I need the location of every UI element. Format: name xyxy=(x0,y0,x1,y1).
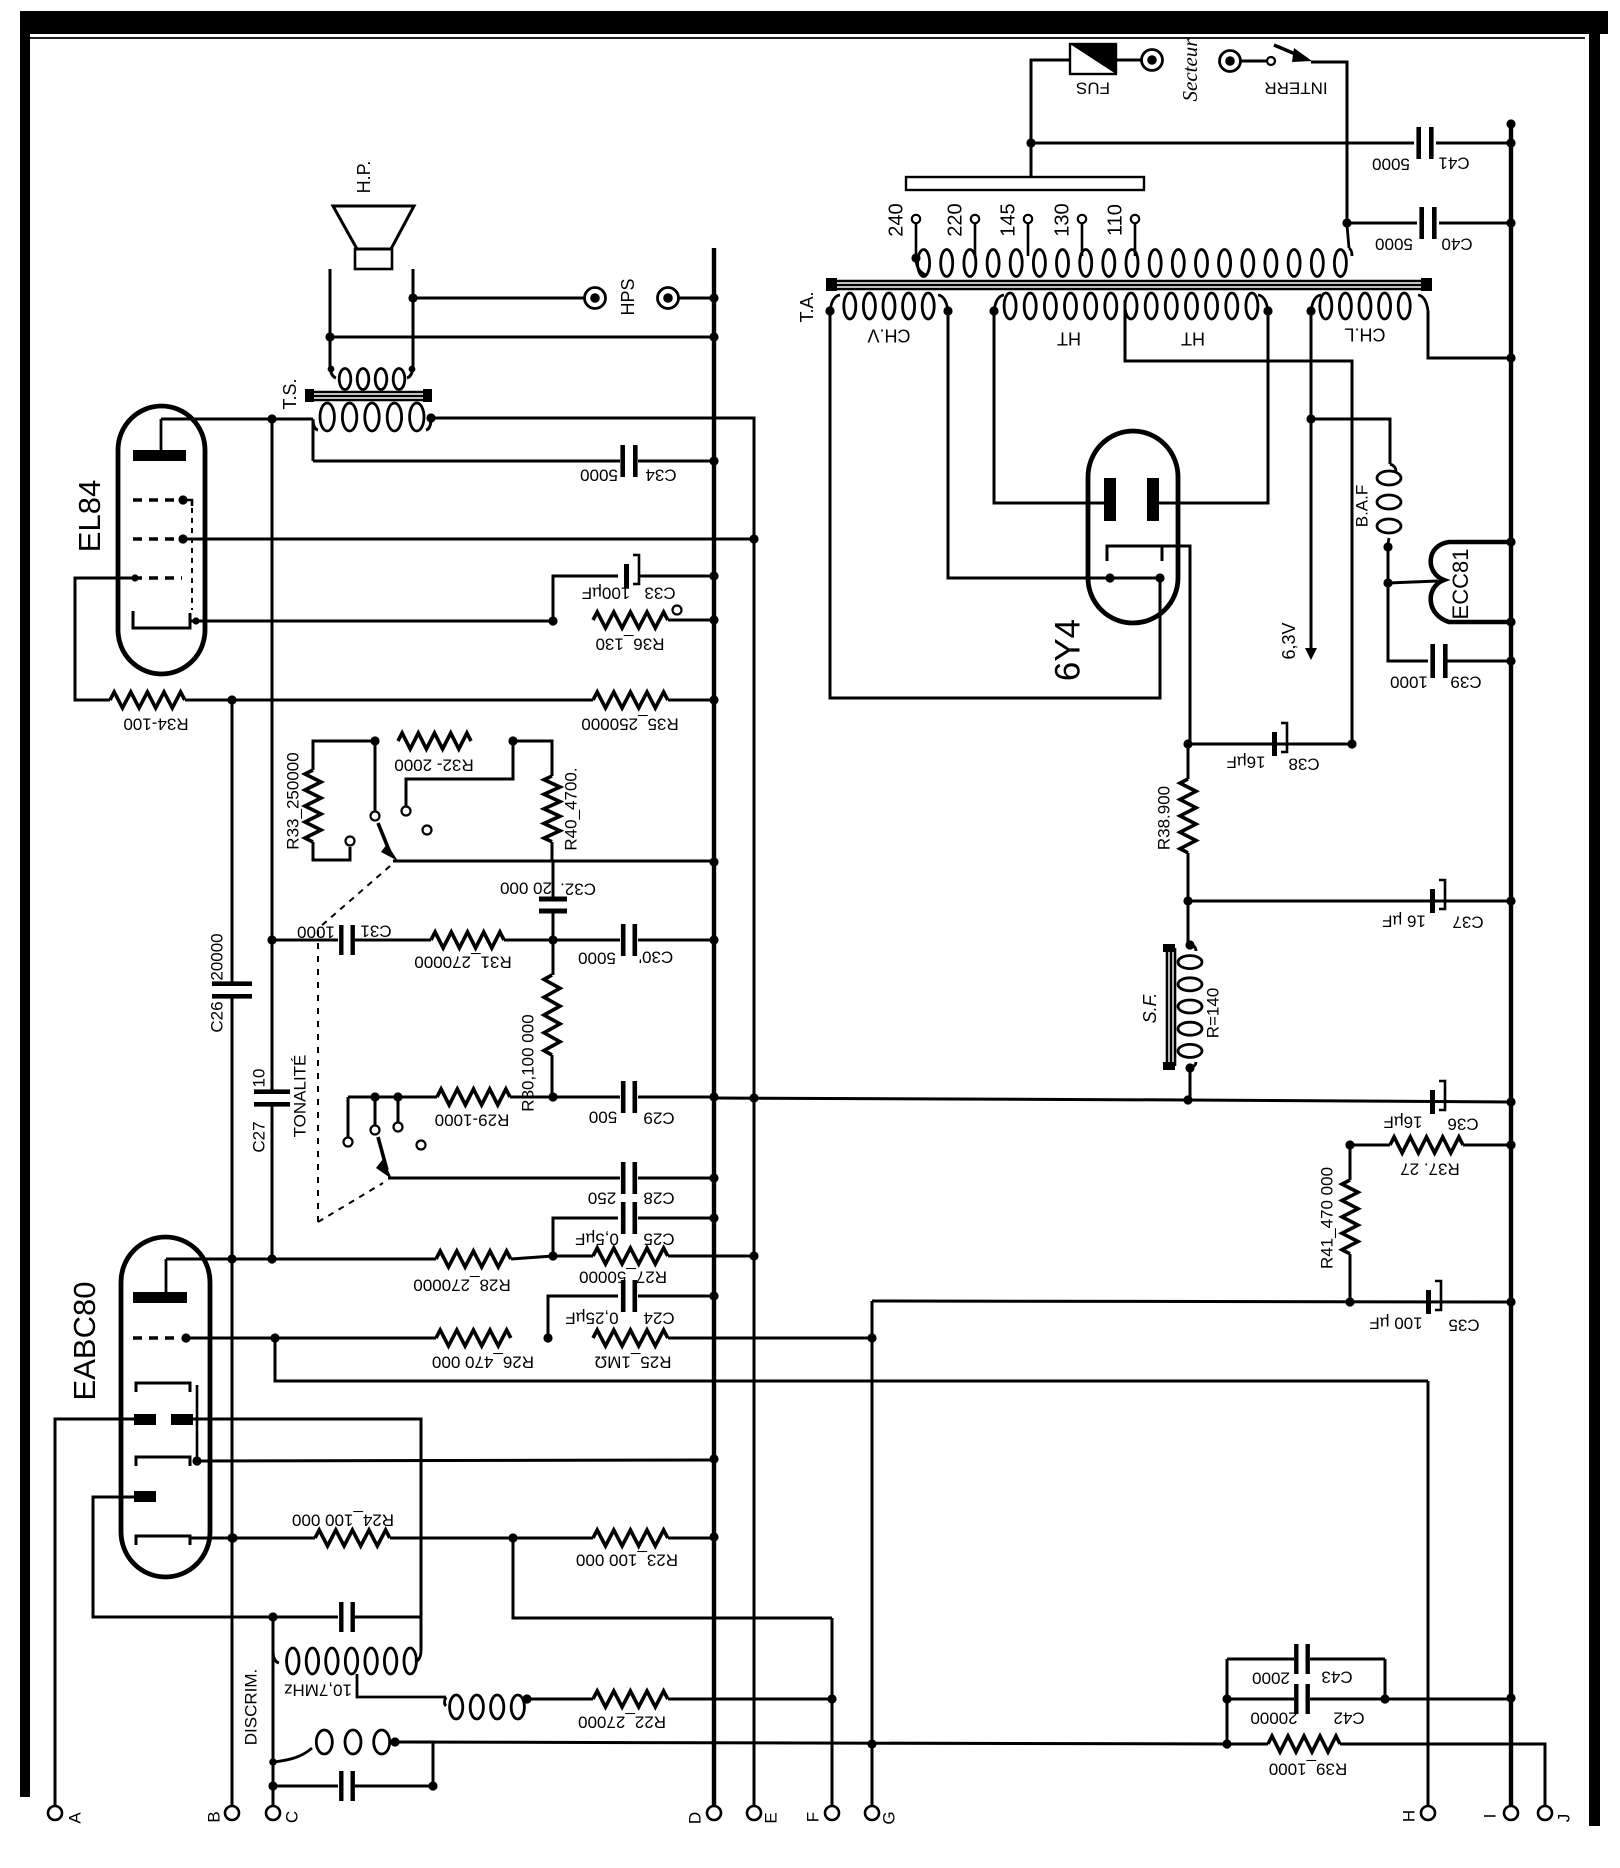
wire C28 to ground bus xyxy=(638,1177,714,1180)
tone switch arm blade xyxy=(378,823,398,861)
wire FUS left xyxy=(1031,60,1070,177)
wire C34 row left xyxy=(313,460,620,463)
label Secteur xyxy=(1178,38,1202,102)
terminal J xyxy=(1538,1806,1552,1820)
svg-text:R29-1000: R29-1000 xyxy=(435,1111,510,1130)
svg-text:HT: HT xyxy=(1057,328,1081,348)
svg-text:C32.: C32. xyxy=(560,880,596,899)
tube EL84 label xyxy=(72,480,107,552)
label HPS xyxy=(618,278,638,315)
resistor R27 xyxy=(593,1248,668,1264)
junction C38 right xyxy=(1347,739,1356,748)
svg-text:C26: C26 xyxy=(207,1001,226,1032)
EL84 g3 pin junction xyxy=(178,495,187,504)
capacitor C40 row wire right xyxy=(1439,222,1511,225)
node EL84 plate wire xyxy=(161,418,313,421)
6Y4 filament lead bar xyxy=(1108,577,1162,580)
capacitor C38 electrolytic xyxy=(1272,723,1287,756)
wire C38 row xyxy=(1188,743,1352,746)
svg-text:A: A xyxy=(65,1812,84,1824)
wire diode right to LC column xyxy=(193,1419,421,1617)
label 6,3V xyxy=(1279,622,1299,659)
capacitor discr tertiary xyxy=(339,1771,355,1801)
resistor R30 xyxy=(544,975,560,1055)
wire discr coupling tap xyxy=(357,1674,446,1697)
transformer 10.7MHz primary winding xyxy=(273,1648,416,1674)
svg-text:500: 500 xyxy=(589,1108,617,1127)
capacitor C35 value label xyxy=(1369,1314,1422,1333)
winding HT label 2 xyxy=(1181,328,1205,348)
transformer T.A. core xyxy=(826,278,1432,291)
tap 220 circle xyxy=(971,215,979,223)
transformer 10.7MHz secondary winding xyxy=(445,1695,525,1719)
junction HT right xyxy=(1263,306,1272,315)
junction tone2 contact top xyxy=(393,1092,402,1101)
right bus wire xyxy=(1509,122,1513,1806)
svg-text:HPS: HPS xyxy=(618,278,638,315)
junction on ground bus xyxy=(709,293,718,302)
svg-text:C37: C37 xyxy=(1452,913,1483,932)
junction on right bus xyxy=(1506,218,1515,227)
wire R25 to G column xyxy=(668,1337,872,1340)
tap 220 label xyxy=(944,203,966,236)
svg-text:R24_100 000: R24_100 000 xyxy=(292,1511,394,1530)
junction R32 right xyxy=(508,736,517,745)
capacitor C33 value label xyxy=(582,584,631,603)
wire R37 row left xyxy=(1350,1144,1390,1147)
transformer T.A. primary winding xyxy=(916,248,1352,277)
svg-text:B: B xyxy=(204,1811,223,1822)
capacitor C37 value label xyxy=(1382,912,1426,931)
junction on ground bus xyxy=(709,1291,718,1300)
tube EABC80 label xyxy=(67,1282,102,1401)
fuse FUS symbol xyxy=(1070,44,1116,74)
svg-text:R25_1MΩ: R25_1MΩ xyxy=(595,1353,672,1372)
choke S.F. winding xyxy=(1178,944,1202,1068)
capacitor C30 xyxy=(621,924,637,956)
junction C27 grid row xyxy=(267,1254,276,1263)
wire C27 column upper xyxy=(271,419,274,1090)
junction S.F. top xyxy=(1185,940,1194,949)
junction R25 G column xyxy=(867,1333,876,1342)
terminal F xyxy=(825,1806,839,1820)
wire C37 row xyxy=(1188,900,1511,903)
wire R33 bottom to contact xyxy=(313,842,350,860)
tap 145 label xyxy=(997,203,1019,236)
svg-text:C24: C24 xyxy=(643,1309,674,1328)
wire R37 to bus xyxy=(1463,1144,1511,1147)
terminal H label xyxy=(1399,1810,1418,1822)
capacitor C41 name label xyxy=(1438,154,1469,173)
wire C30 to ground bus xyxy=(638,939,714,942)
resistor R24 xyxy=(315,1530,390,1546)
wire B column lower xyxy=(231,1259,234,1806)
junction on right bus xyxy=(1506,1297,1515,1306)
junction T.S. primary right xyxy=(426,413,435,422)
wire R22 to F column xyxy=(668,1698,832,1701)
junction CH.V left xyxy=(825,306,834,315)
tone2 switch arm blade xyxy=(376,1137,392,1179)
resistor R41 xyxy=(1342,1180,1358,1254)
wire C column xyxy=(272,1617,275,1806)
junction cathode3 B column xyxy=(228,1533,237,1542)
resistor R40 label xyxy=(561,767,580,850)
junction tone2 pivot top xyxy=(370,1092,379,1101)
junction tone switch top xyxy=(370,736,379,745)
wire R27 to B+ column xyxy=(668,1255,754,1258)
loudspeaker throat xyxy=(355,249,392,269)
tap 240 label xyxy=(885,203,907,236)
junction plate wire / C27 column xyxy=(267,414,276,423)
capacitor C40 row wire left xyxy=(1347,222,1417,225)
wire discr output long row xyxy=(395,1742,1227,1744)
junction CH.V right xyxy=(943,306,952,315)
wire C42 row xyxy=(1227,1698,1294,1701)
EABC80 cathode 1 xyxy=(136,1383,190,1392)
terminal C xyxy=(266,1806,280,1820)
svg-text:B.A.F: B.A.F xyxy=(1352,485,1371,528)
junction on ground bus xyxy=(709,1454,718,1463)
wire cathode2 row to ground bus xyxy=(197,1460,714,1461)
wire C29 row xyxy=(553,1096,620,1099)
capacitor C43 xyxy=(1294,1644,1310,1674)
loudspeaker H.P. horn xyxy=(333,206,414,249)
svg-text:F: F xyxy=(803,1812,822,1822)
junction on ground bus xyxy=(709,571,718,580)
wire contact b1 stem xyxy=(347,1097,350,1137)
winding CH.L xyxy=(1311,293,1428,319)
capacitor C37 electrolytic xyxy=(1430,880,1445,913)
label TONALITE xyxy=(290,1055,309,1138)
EL84 grid g1 dashes xyxy=(133,576,182,580)
resistor R30 label xyxy=(518,1014,537,1111)
svg-text:C39: C39 xyxy=(1450,673,1481,692)
svg-text:0,25µF: 0,25µF xyxy=(565,1309,618,1328)
6Y4 filament xyxy=(1107,546,1162,561)
EABC80 grid pin junction xyxy=(181,1333,190,1342)
junction on right bus xyxy=(1506,1097,1515,1106)
capacitor C35 name label xyxy=(1448,1316,1479,1335)
switch contact a1 xyxy=(346,837,355,846)
junction screen/B+ column xyxy=(749,534,758,543)
junction R24 right xyxy=(508,1533,517,1542)
svg-text:R37. 27: R37. 27 xyxy=(1400,1160,1460,1179)
junction R26/R25/C24 node xyxy=(543,1333,552,1342)
wire R30 bottom xyxy=(551,1055,554,1097)
wire C43 top row xyxy=(1227,1658,1294,1661)
resistor R34 xyxy=(110,692,185,708)
wire R40 bottom xyxy=(551,842,554,861)
wire B column mid xyxy=(231,996,234,1259)
choke S.F. value label xyxy=(1203,988,1222,1039)
resistor R23 label xyxy=(576,1551,678,1570)
junction on right bus xyxy=(1506,1693,1515,1702)
EL84 g2 pin junction xyxy=(178,534,187,543)
junction R27 left xyxy=(548,1251,557,1260)
right bus top junction xyxy=(1506,119,1515,128)
junction C31/C30/R30 node xyxy=(548,935,557,944)
wire B+ screen line xyxy=(714,1098,1188,1100)
terminal F label xyxy=(803,1812,822,1822)
junction C40 row xyxy=(1342,218,1351,227)
wire cathode3 row xyxy=(190,1537,315,1540)
tap 110 circle xyxy=(1131,215,1139,223)
junction C38 left xyxy=(1183,739,1192,748)
resistor R25 xyxy=(593,1330,668,1346)
wire 6.3V heater line xyxy=(1310,311,1313,648)
svg-text:20000: 20000 xyxy=(1250,1709,1297,1728)
capacitor C24 name label xyxy=(643,1309,674,1328)
wire discr secondary to R22 xyxy=(527,1698,593,1701)
wire C24 bracket xyxy=(548,1296,618,1337)
capacitor C39 value label xyxy=(1390,673,1428,692)
svg-text:R40_4700.: R40_4700. xyxy=(561,767,580,850)
loudspeaker label H.P. xyxy=(354,161,374,194)
wire R34 to R35 xyxy=(185,699,593,702)
svg-text:16µF: 16µF xyxy=(1226,753,1265,772)
wire tone2 top row xyxy=(348,1096,437,1099)
wire C39 branch xyxy=(1388,583,1428,661)
mechanical link dashes upper xyxy=(320,866,390,927)
EABC80 cathode 2 xyxy=(136,1457,190,1466)
capacitor C38 value label xyxy=(1226,753,1265,772)
svg-text:J: J xyxy=(1554,1814,1573,1823)
resistor R31 xyxy=(431,932,504,948)
wire C43 riser left xyxy=(1226,1659,1229,1744)
junction discr secondary right xyxy=(522,1694,531,1703)
junction B column R24 row xyxy=(227,1533,236,1542)
wire pivot stem xyxy=(374,1097,377,1125)
EABC80 diode plates xyxy=(134,1414,193,1425)
terminal B xyxy=(225,1806,239,1820)
capacitor C31 xyxy=(339,925,355,955)
wire HT center tap xyxy=(1125,300,1352,744)
wire R36 to ground bus xyxy=(668,619,714,622)
capacitor C28 value label xyxy=(588,1189,616,1208)
svg-text:130: 130 xyxy=(1051,203,1073,236)
junction discr LC left xyxy=(268,1612,277,1621)
wire EL84 screen to B+ line xyxy=(183,538,754,541)
switch contact b3 spare xyxy=(417,1141,426,1150)
junction S.F. bottom end xyxy=(1185,1063,1194,1072)
EABC80 plate xyxy=(133,1292,187,1303)
wire diode left to A column xyxy=(55,1419,134,1806)
choke B.A.F winding xyxy=(1377,464,1401,546)
wire R24 to R23 xyxy=(390,1537,593,1540)
wire R31 to node xyxy=(504,939,553,942)
wire R40 top xyxy=(513,741,552,776)
junction tertiary cap right xyxy=(428,1781,437,1790)
svg-text:EABC80: EABC80 xyxy=(67,1282,102,1401)
tap 110 stem xyxy=(1134,223,1137,256)
resistor R24 label xyxy=(292,1511,394,1530)
6Y4 plate left xyxy=(1104,478,1116,521)
border frame left xyxy=(20,11,30,1797)
svg-text:D: D xyxy=(685,1812,704,1824)
resistor R36 label xyxy=(595,635,664,654)
capacitor C37 name label xyxy=(1452,913,1483,932)
resistor R35 xyxy=(593,692,668,708)
wire CH.L right to bus xyxy=(1428,311,1511,358)
junction F column R22 xyxy=(827,1694,836,1703)
svg-text:H: H xyxy=(1399,1810,1418,1822)
svg-text:R35_250000: R35_250000 xyxy=(581,715,678,734)
wire C29 to ground bus xyxy=(638,1096,714,1099)
wire H column xyxy=(1427,1381,1430,1806)
EL84 grid g3 dashes xyxy=(133,498,179,502)
resistor R32 xyxy=(398,733,471,749)
resistor R28 label xyxy=(413,1276,510,1295)
junction R41 bottom xyxy=(1345,1297,1354,1306)
capacitor C24 value label xyxy=(565,1309,618,1328)
svg-text:5000: 5000 xyxy=(1375,235,1413,254)
svg-text:S.F.: S.F. xyxy=(1140,993,1160,1024)
resistor R37 label xyxy=(1400,1160,1460,1179)
EABC80 diode plate 2 xyxy=(134,1491,156,1502)
resistor R29 xyxy=(437,1089,510,1105)
tap 130 stem xyxy=(1081,223,1084,256)
tap 130 label xyxy=(1051,203,1073,236)
wire R39 to J column xyxy=(1340,1744,1545,1806)
capacitor C32 value label xyxy=(500,879,552,898)
svg-text:R34-100: R34-100 xyxy=(123,715,188,734)
junction T.S. secondary right xyxy=(409,366,416,373)
resistor R38 label xyxy=(1154,786,1173,850)
label 10.7MHz xyxy=(284,1681,352,1700)
svg-text:100µF: 100µF xyxy=(582,584,631,603)
junction cathode/C33 column xyxy=(548,616,557,625)
loudspeaker frame left wire xyxy=(329,269,332,364)
resistor R28 xyxy=(436,1251,511,1267)
wire discr LC left drop xyxy=(272,1617,275,1652)
wire R38 leads xyxy=(1187,744,1190,944)
wire C36 row xyxy=(1188,1100,1511,1102)
junction HT left xyxy=(989,306,998,315)
capacitor C36 value label xyxy=(1383,1113,1422,1132)
wire G column upper xyxy=(871,1301,874,1338)
tap 240 circle xyxy=(912,215,920,223)
resistor R34 label xyxy=(123,715,188,734)
wire C24 to ground bus xyxy=(638,1295,714,1298)
junction FUS column C41 row xyxy=(1026,138,1035,147)
switch INTERR label xyxy=(1264,79,1327,98)
choke S.F. core xyxy=(1163,944,1175,1070)
wire HT left to 6Y4 plate xyxy=(994,311,1104,503)
EABC80 cathode 3 xyxy=(136,1536,190,1545)
junction on right bus xyxy=(1506,353,1515,362)
wire C27 column lower xyxy=(271,1106,274,1259)
EABC80 plate lead xyxy=(165,1259,168,1292)
wire C33 branch xyxy=(553,576,618,621)
terminal D xyxy=(707,1806,721,1820)
wire B column upper xyxy=(231,700,234,984)
transformer T.S. secondary voice coil xyxy=(330,364,413,390)
capacitor C35 electrolytic xyxy=(1426,1281,1441,1314)
junction C42 left xyxy=(1222,1694,1231,1703)
svg-text:INTERR: INTERR xyxy=(1264,79,1327,98)
junction C42 right xyxy=(1380,1694,1389,1703)
junction G column discr row xyxy=(867,1739,876,1748)
terminal H xyxy=(1421,1806,1435,1820)
svg-text:C41: C41 xyxy=(1438,154,1469,173)
resistor R32 label xyxy=(394,756,473,775)
fuse FUS label xyxy=(1076,79,1110,98)
junction on right bus xyxy=(1506,656,1515,665)
svg-text:R38.900: R38.900 xyxy=(1154,786,1173,850)
switch contact a3 spare xyxy=(423,826,432,835)
svg-text:DISCRIM.: DISCRIM. xyxy=(241,1669,260,1746)
border frame top xyxy=(20,11,1608,34)
choke S.F. label xyxy=(1140,993,1160,1024)
wire C32 column top xyxy=(552,861,555,899)
wire primary right to C40 junction xyxy=(1347,225,1349,248)
wire R33 top row xyxy=(313,741,375,770)
svg-text:R32- 2000: R32- 2000 xyxy=(394,756,473,775)
resistor R38 xyxy=(1180,779,1196,853)
junction R37 left xyxy=(1345,1140,1354,1149)
wire R39 row left xyxy=(1227,1743,1268,1746)
EL84 g3 internal link xyxy=(183,500,192,610)
wire discr cap row right xyxy=(355,1616,421,1619)
resistor R27 label xyxy=(579,1268,667,1287)
junction B column grid row xyxy=(227,1254,236,1263)
wire speaker frame to ground bus xyxy=(330,336,714,339)
svg-text:5000: 5000 xyxy=(1372,155,1410,174)
terminal D label xyxy=(685,1812,704,1824)
capacitor C34 name label xyxy=(645,466,676,485)
resistor R26 xyxy=(436,1330,511,1346)
junction on ground bus xyxy=(709,1092,718,1101)
winding CH.L label xyxy=(1344,324,1385,344)
svg-text:CH.V: CH.V xyxy=(867,325,910,345)
junction S.F. bottom xyxy=(1183,1095,1192,1104)
wire R27 left xyxy=(553,1255,593,1258)
svg-text:10,7MHz: 10,7MHz xyxy=(284,1681,352,1700)
capacitor C28 name label xyxy=(643,1189,674,1208)
wire C32 column bottom xyxy=(552,911,555,975)
wire tertiary right link xyxy=(395,1742,433,1786)
tube ECC81 label xyxy=(1448,549,1473,620)
svg-text:R22_27000: R22_27000 xyxy=(578,1713,666,1732)
svg-text:H.P.: H.P. xyxy=(354,161,374,194)
wire F column xyxy=(831,1618,834,1806)
junction C31 tap on plate column xyxy=(267,935,276,944)
svg-text:C28: C28 xyxy=(643,1189,674,1208)
winding HT label 1 xyxy=(1057,328,1081,348)
tube 6Y4 label xyxy=(1048,619,1087,681)
wire C31 row xyxy=(272,939,338,942)
wire diode2 to discr xyxy=(93,1497,273,1617)
wire CH.V left to filament xyxy=(830,311,1160,698)
tube ECC81 heater block xyxy=(1431,542,1509,622)
svg-text:R39_1000: R39_1000 xyxy=(1269,1760,1347,1779)
wire discr cap row xyxy=(273,1616,338,1619)
capacitor C41 row wire right xyxy=(1436,142,1511,145)
capacitor C31 value label xyxy=(297,923,335,942)
wire speaker to HPS jack xyxy=(413,297,584,300)
capacitor C36 electrolytic xyxy=(1430,1081,1445,1114)
junction filament right pin xyxy=(1155,573,1164,582)
svg-text:FUS: FUS xyxy=(1076,79,1110,98)
wire FUS to jack xyxy=(1116,59,1141,62)
capacitor C36 name label xyxy=(1447,1115,1478,1134)
tap 145 circle xyxy=(1024,215,1032,223)
junction on right bus xyxy=(1506,896,1515,905)
switch contact b2 xyxy=(394,1123,403,1132)
tube 6Y4 envelope xyxy=(1088,431,1178,623)
choke B.A.F label xyxy=(1352,485,1371,528)
junction ECC81 heater node xyxy=(1383,578,1392,587)
